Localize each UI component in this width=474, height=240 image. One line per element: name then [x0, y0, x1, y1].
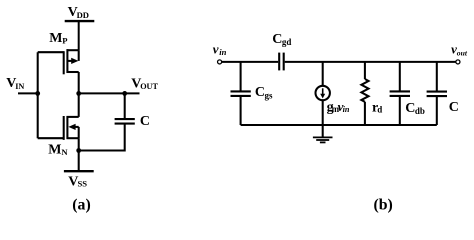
junction node VOUT at drains [76, 91, 81, 96]
svg-text:M: M [48, 143, 61, 158]
svg-text:P: P [62, 36, 67, 46]
wire resistor bottom lead [364, 102, 366, 125]
svg-text:IN: IN [15, 82, 24, 91]
wire VDD stem to MP source [78, 21, 80, 50]
transistor MP (PMOS) [64, 49, 79, 74]
junction node capacitor tap [122, 91, 127, 96]
terminal vin [218, 60, 222, 64]
svg-text:db: db [415, 106, 425, 116]
wire MN gate [38, 137, 64, 139]
svg-text:SS: SS [78, 179, 88, 189]
svg-text:gs: gs [265, 90, 274, 100]
wire bottom rail [241, 124, 437, 126]
capacitor Cgd [279, 53, 284, 71]
wire Cgs top lead [240, 62, 242, 92]
wire Cdb bottom lead [399, 96, 401, 125]
svg-text:M: M [49, 31, 62, 46]
resistor rd [361, 79, 368, 102]
wire output horizontal [79, 92, 140, 94]
wire MN source to VSS [78, 138, 80, 171]
svg-text:gd: gd [282, 37, 292, 47]
svg-text:in: in [343, 105, 350, 114]
svg-text:C: C [449, 100, 459, 115]
capacitor C2 [427, 92, 447, 97]
svg-text:in: in [219, 47, 226, 57]
wire C2 bottom lead [436, 96, 438, 125]
wire top rail right [285, 61, 456, 63]
VDD supply bar [65, 20, 95, 22]
wire MP gate [38, 51, 64, 53]
wire current source top lead [322, 62, 324, 86]
wire VIN lead [18, 92, 38, 94]
svg-text:(a): (a) [72, 196, 90, 213]
wire MN drain to output node [78, 93, 80, 117]
wire resistor top lead [364, 62, 366, 79]
svg-text:DD: DD [77, 10, 89, 20]
wire Cdb top lead [399, 62, 401, 92]
VSS supply bar [64, 170, 94, 172]
svg-text:out: out [457, 48, 468, 57]
capacitor Cdb [390, 91, 410, 96]
wire capacitor C top lead [124, 93, 126, 119]
terminal vout [456, 60, 460, 64]
transistor MN (NMOS) [64, 116, 79, 140]
capacitor Cgs [231, 91, 251, 96]
svg-text:C: C [255, 85, 265, 100]
wire capacitor C bottom lead [79, 124, 125, 151]
wire top rail left [222, 61, 278, 63]
ground [313, 125, 333, 142]
wire Cgs bottom lead [240, 96, 242, 125]
label gm vin [327, 99, 350, 115]
svg-text:N: N [61, 147, 68, 157]
svg-text:OUT: OUT [140, 82, 158, 91]
junction node VIN gate [35, 91, 40, 96]
svg-text:(b): (b) [374, 196, 393, 213]
wire C2 top lead [436, 62, 438, 92]
svg-text:d: d [377, 104, 382, 114]
junction node source tap [76, 148, 81, 153]
svg-text:C: C [140, 114, 150, 129]
current source gm*vin [316, 86, 330, 100]
wire current source bottom lead [322, 100, 324, 125]
wire MP drain to output node [78, 72, 80, 93]
wire common gate vertical [37, 52, 39, 138]
svg-text:v: v [213, 41, 219, 56]
capacitor C [115, 119, 135, 124]
